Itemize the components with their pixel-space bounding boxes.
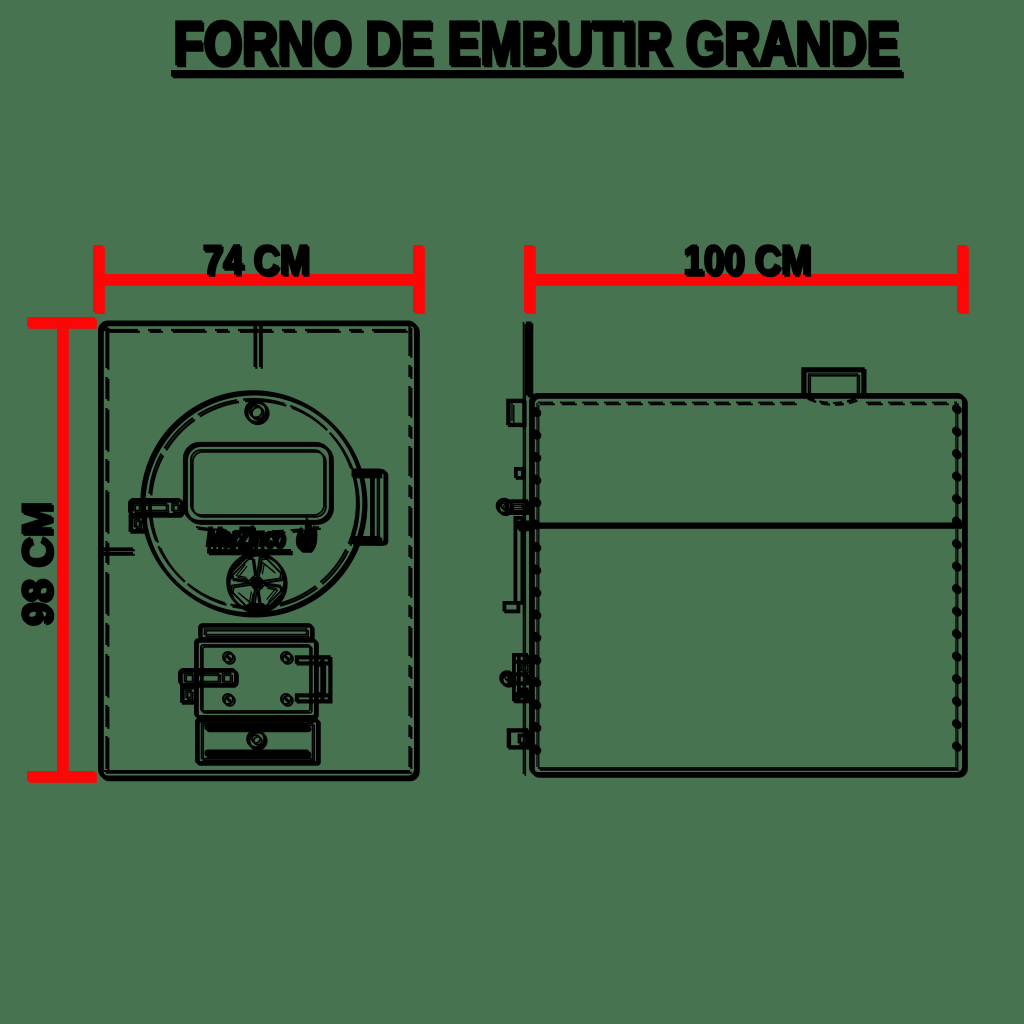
side door strip [504,517,522,611]
firebox bolts [223,652,291,704]
door handle (right) [352,469,385,544]
side inner edge lines [537,403,956,767]
front view outer box [100,323,416,778]
fan [228,554,285,612]
oven door inner circle [149,399,357,607]
door window [185,444,331,532]
logo MarZinco with flame [206,516,316,554]
firebox top lip [200,625,312,639]
title FORNO DE EMBUTIR GRANDE [171,9,902,77]
side view body [531,395,964,774]
side bottom bracket [508,730,527,747]
dimension 74 CM [93,236,423,312]
firebox door [196,640,316,717]
firebox bracket (right) [296,657,330,701]
dimension 98 CM [13,317,95,781]
firebox latch [180,670,236,702]
dimension 100 CM [524,236,967,312]
side small notch [515,468,522,477]
side hinge pin upper [497,499,527,513]
oven door outer circle [142,392,364,614]
front top center seam [255,324,261,367]
vent hole [246,401,267,422]
side lower hinge cluster [501,654,529,701]
ash drawer [197,720,318,763]
side view front edge line [524,322,532,774]
door hinge (left) [102,500,182,554]
chimney stub [803,369,863,403]
side rivet dots left [532,411,540,766]
side hinge bracket top [508,400,524,424]
side divider line [531,523,964,528]
side rivet dots right [952,408,960,766]
